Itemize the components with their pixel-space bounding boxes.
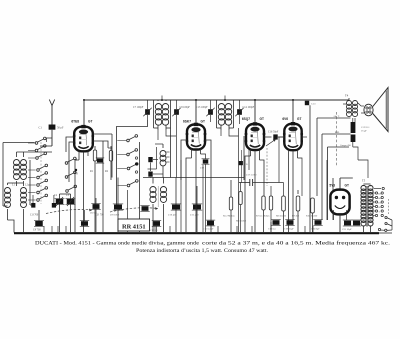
svg-text:5Y3: 5Y3: [329, 184, 335, 188]
svg-text:16 µF: 16 µF: [361, 129, 367, 132]
svg-text:Campo 450: Campo 450: [340, 145, 352, 147]
svg-text:C14 100pF: C14 100pF: [243, 106, 255, 109]
svg-text:Rete: Rete: [369, 186, 373, 188]
svg-text:C.P. 700: C.P. 700: [95, 214, 104, 217]
svg-text:C16 50pF: C16 50pF: [268, 131, 279, 134]
svg-text:R10 10.000: R10 10.000: [306, 215, 318, 218]
svg-text:6SQ7: 6SQ7: [242, 117, 250, 121]
svg-text:GT: GT: [201, 119, 205, 123]
svg-text:C7 100pF: C7 100pF: [133, 106, 144, 109]
svg-text:C17 5.000: C17 5.000: [246, 174, 257, 177]
svg-text:R7 0,5 Mohm: R7 0,5 Mohm: [256, 215, 269, 218]
svg-text:C9 8.000: C9 8.000: [110, 214, 120, 217]
svg-text:50 pF: 50 pF: [57, 127, 64, 130]
svg-text:C18 0,5: C18 0,5: [268, 228, 276, 231]
svg-text:C19 25µF: C19 25µF: [284, 228, 294, 231]
svg-text:GT: GT: [345, 184, 349, 188]
svg-text:R8 50.000: R8 50.000: [276, 215, 287, 218]
svg-text:GT: GT: [260, 117, 264, 121]
svg-text:C.8 700: C.8 700: [30, 214, 39, 217]
svg-text:corte da 52 a 37 m, e da 40 a: corte da 52 a 37 m, e da 40 a 16,5 m. Me…: [202, 240, 391, 247]
svg-text:Potenza indistorta d’uscita 1,: Potenza indistorta d’uscita 1,5 watt. Co…: [136, 248, 268, 254]
svg-text:C9 700: C9 700: [33, 229, 41, 232]
svg-text:C12 0,1: C12 0,1: [150, 229, 158, 232]
svg-text:C8 100pF: C8 100pF: [180, 106, 191, 109]
svg-text:RR 4151: RR 4151: [122, 223, 146, 230]
svg-text:6V6: 6V6: [282, 117, 288, 121]
svg-text:C13 100pF: C13 100pF: [196, 106, 208, 109]
svg-text:B.M.: B.M.: [335, 132, 340, 134]
svg-text:R5 2 Mohm: R5 2 Mohm: [223, 215, 235, 218]
svg-text:R9 300: R9 300: [292, 215, 300, 218]
svg-text:R6 50.000: R6 50.000: [236, 220, 247, 223]
svg-text:C21 16µF: C21 16µF: [342, 228, 352, 231]
svg-text:GT: GT: [297, 117, 301, 121]
svg-text:C10 450: C10 450: [168, 214, 177, 217]
svg-text:GT: GT: [88, 119, 92, 123]
svg-text:DUCATI - Mod. 4151 - Gamma ond: DUCATI - Mod. 4151 - Gamma onde medie di…: [35, 241, 200, 247]
svg-text:C15 0,1µF: C15 0,1µF: [203, 228, 214, 231]
svg-text:C20 8µF: C20 8µF: [311, 228, 320, 231]
svg-text:6TE8: 6TE8: [71, 119, 79, 123]
svg-text:C11 450: C11 450: [190, 214, 199, 217]
svg-text:6SK7: 6SK7: [183, 119, 191, 123]
